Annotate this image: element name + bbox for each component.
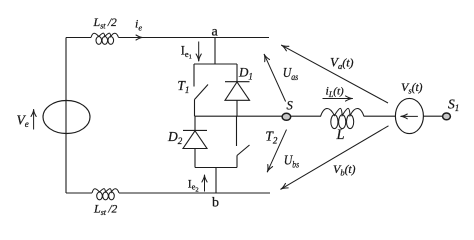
inductor Lst/2 top	[91, 33, 119, 37]
svg-text:L: L	[336, 127, 345, 143]
arrow Va(t) from source to node a	[282, 45, 389, 103]
svg-text:Lst /2: Lst /2	[93, 201, 118, 217]
voltage source Ve	[43, 101, 90, 134]
svg-text:Vs(t): Vs(t)	[401, 80, 423, 95]
svg-text:Lst /2: Lst /2	[93, 15, 118, 31]
svg-text:a: a	[212, 25, 219, 40]
arrow Vb(t) from source to node b	[281, 126, 389, 189]
svg-text:S1: S1	[448, 97, 459, 114]
arrow Ubs from S to node b side	[267, 130, 286, 172]
svg-text:D2: D2	[167, 129, 183, 146]
arrow inside source Vs	[401, 115, 418, 117]
wire node S to inductor L	[291, 115, 321, 117]
arrow Ie2 up	[204, 175, 206, 192]
wire node a vertical	[214, 38, 216, 65]
arrow iL direction	[323, 98, 353, 100]
svg-text:T2: T2	[265, 129, 278, 146]
svg-text:ie: ie	[135, 17, 142, 33]
svg-text:Va(t): Va(t)	[330, 55, 354, 72]
svg-text:T1: T1	[177, 78, 189, 95]
switch T2	[237, 116, 250, 167]
svg-text:Ve: Ve	[17, 113, 29, 130]
voltage source Vs(t)	[395, 98, 423, 133]
svg-text:Ubs: Ubs	[284, 153, 300, 169]
inductor L	[321, 108, 365, 116]
arrowhead ie on top wire	[136, 35, 143, 40]
svg-text:iL(t): iL(t)	[326, 84, 345, 100]
arrow Ie1 down	[198, 42, 200, 62]
wire inductor L to source Vs	[364, 115, 396, 117]
wire top	[66, 37, 269, 39]
svg-text:Ie2: Ie2	[188, 178, 199, 193]
wire bridge bottom bar	[195, 167, 237, 169]
svg-text:Ie1: Ie1	[181, 44, 192, 61]
switch T1	[194, 64, 208, 116]
wire middle bar to node S	[195, 115, 284, 117]
arrow Ve polarity	[33, 110, 35, 130]
node S1 terminal dot	[443, 113, 451, 120]
wire bridge top bar	[194, 63, 237, 65]
node S junction dot	[282, 113, 291, 120]
svg-text:S: S	[287, 99, 294, 113]
inductor Lst/2 bottom	[92, 189, 119, 193]
diode D1	[225, 64, 250, 116]
svg-text:Vb(t): Vb(t)	[333, 162, 356, 178]
svg-text:Uas: Uas	[283, 65, 299, 82]
arrow Uas from S to node a side	[264, 54, 285, 101]
wire source Vs to node S1	[423, 115, 443, 117]
svg-text:D1: D1	[238, 65, 253, 82]
svg-text:b: b	[212, 196, 219, 211]
wire node b vertical	[215, 168, 217, 194]
wire bottom	[66, 192, 270, 194]
wire left vertical (Ve branch)	[65, 38, 67, 194]
diode D2	[183, 116, 207, 167]
